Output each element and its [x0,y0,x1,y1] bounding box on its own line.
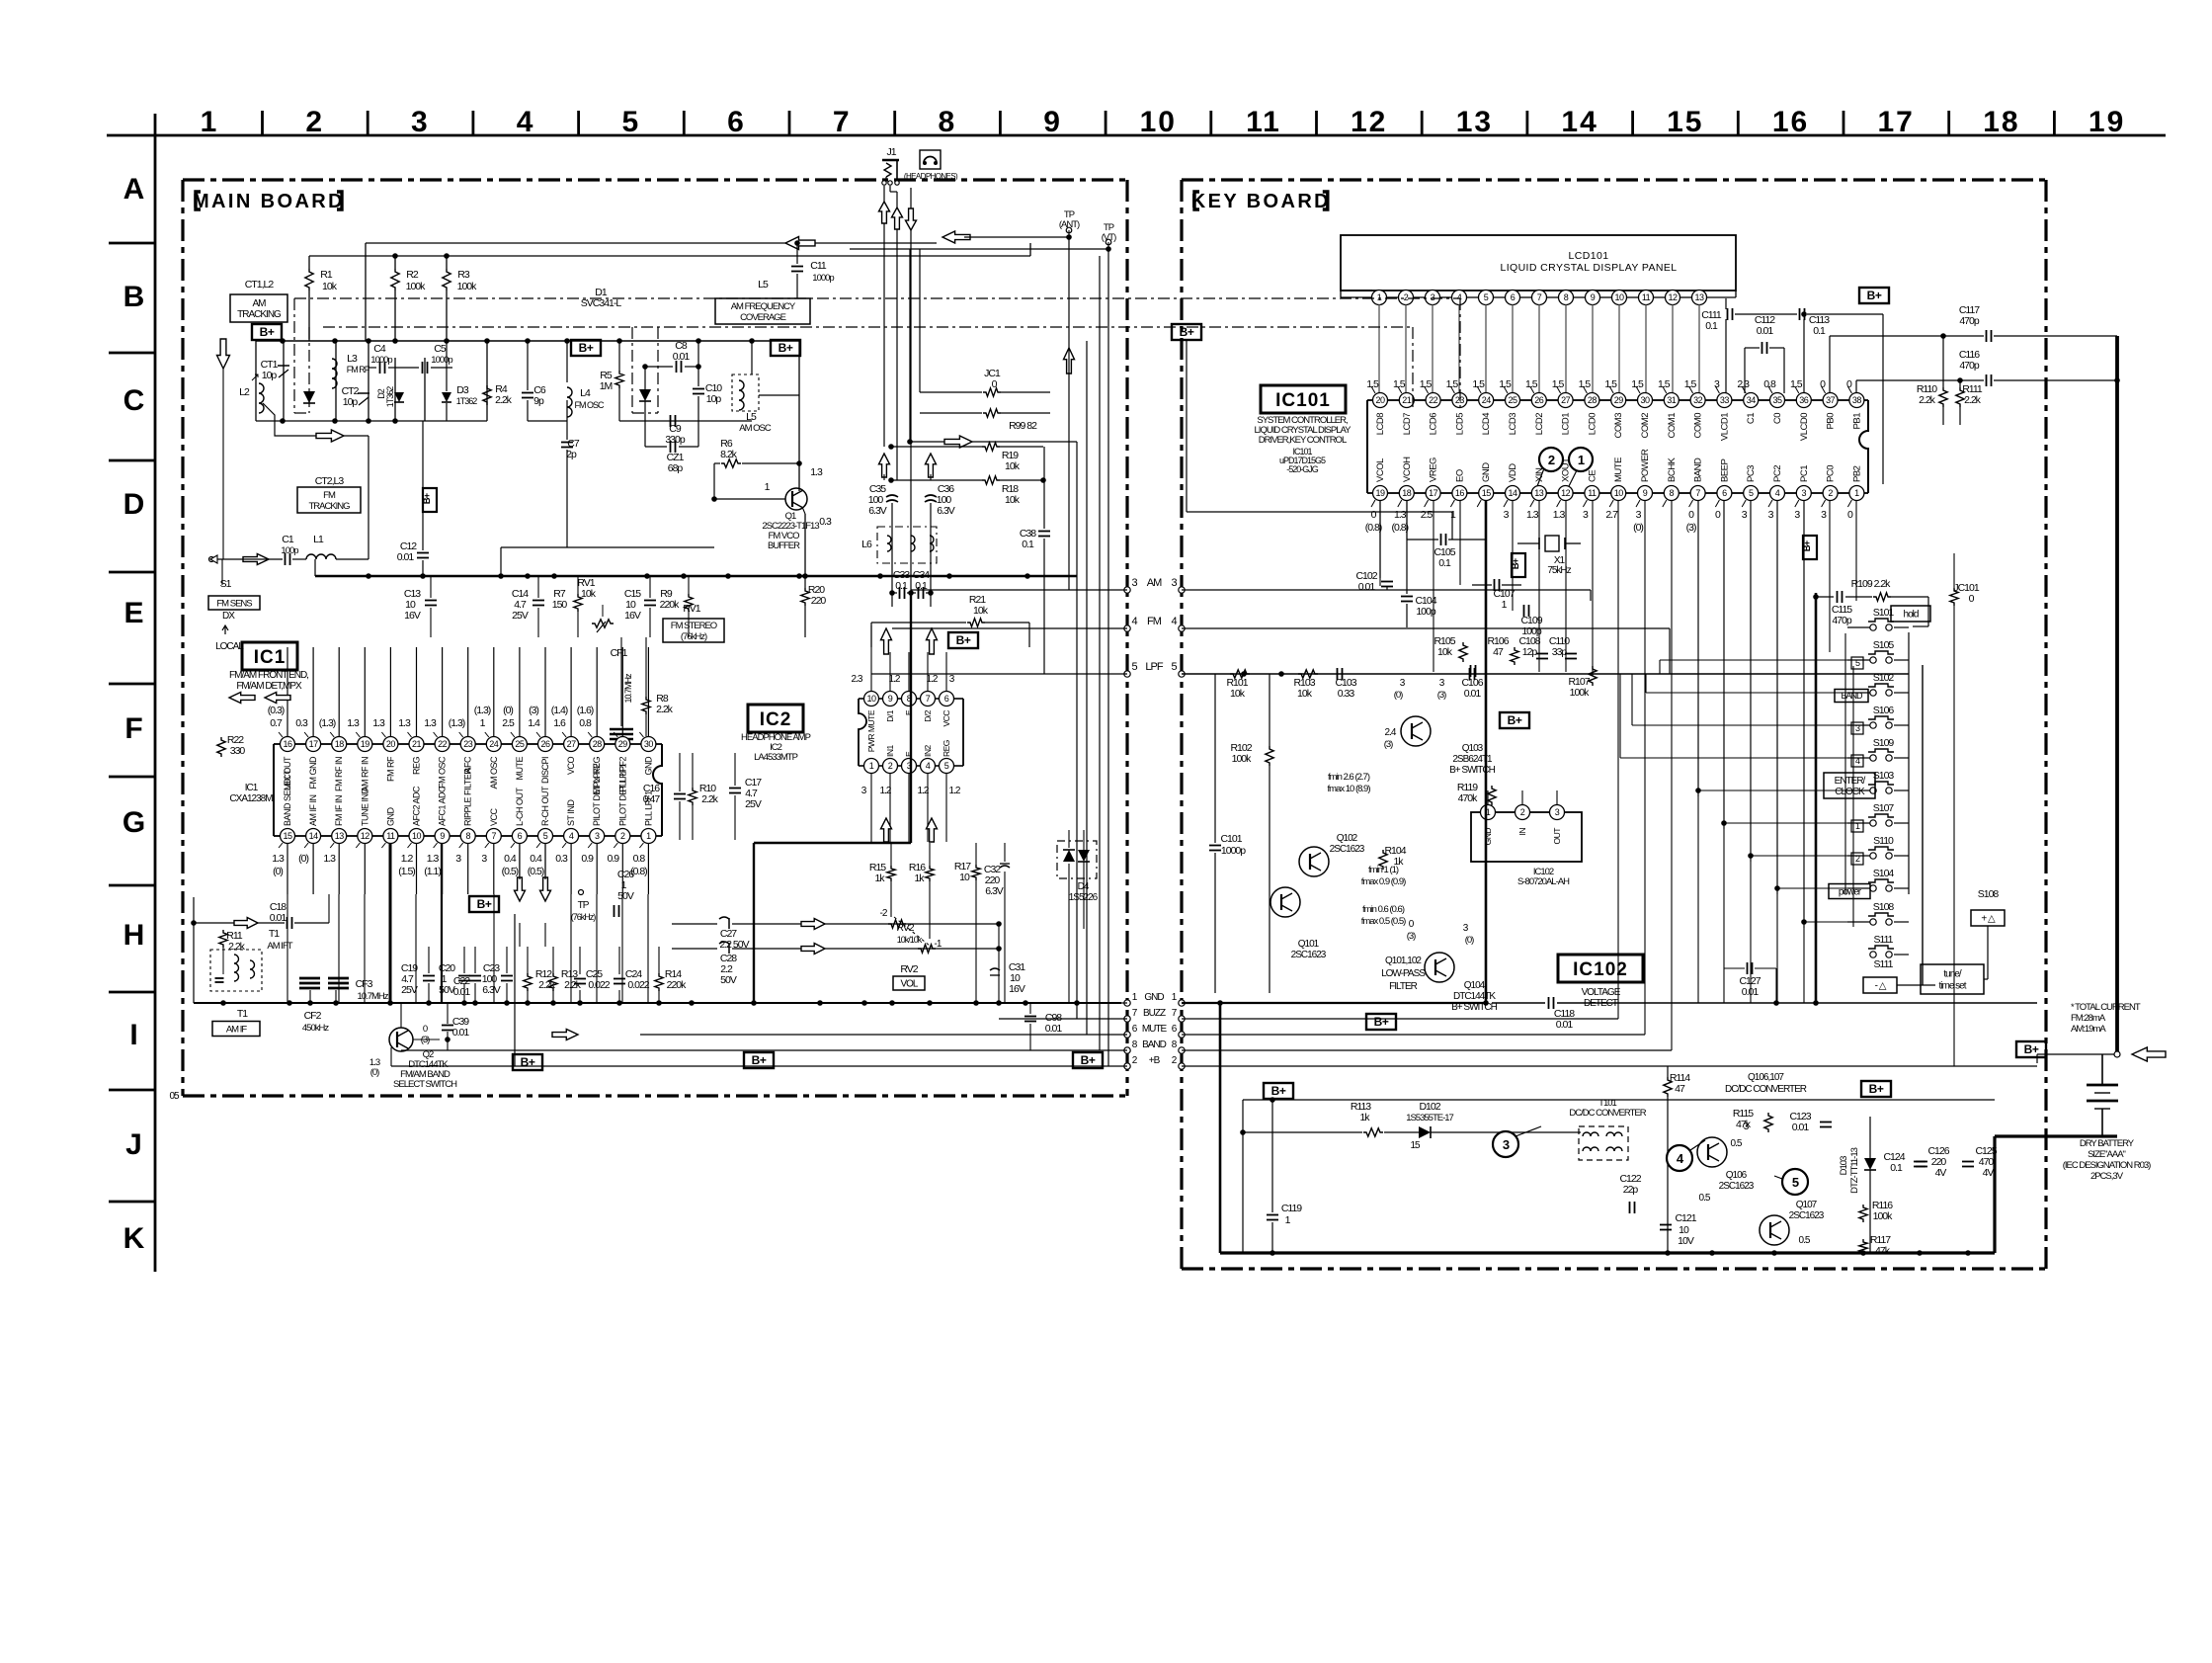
svg-text:2.7: 2.7 [1605,509,1618,521]
svg-text:COM0: COM0 [1693,413,1704,439]
svg-text:VOLTAGE: VOLTAGE [1582,987,1621,998]
svg-text:100k: 100k [457,281,478,292]
svg-text:VCOL: VCOL [1375,458,1386,482]
svg-text:FM RF IN: FM RF IN [334,757,344,791]
svg-text:25: 25 [515,739,525,749]
svg-text:7: 7 [1695,488,1700,498]
svg-text:(1.3): (1.3) [474,705,491,716]
svg-text:RIPPLE FILTER: RIPPLE FILTER [463,768,473,826]
svg-text:+B: +B [1149,1055,1161,1066]
svg-text:GND: GND [1483,828,1493,846]
svg-text:B+: B+ [1180,325,1194,339]
svg-text:ST IND: ST IND [566,799,576,826]
svg-text:PILOT DET LPF2: PILOT DET LPF2 [592,763,602,826]
svg-text:16V: 16V [1009,983,1025,995]
svg-text:31: 31 [1667,395,1677,405]
svg-text:24: 24 [489,739,499,749]
svg-text:AM:19mA: AM:19mA [2071,1024,2106,1035]
svg-text:PLL LPF1: PLL LPF1 [643,790,653,826]
svg-text:2.4: 2.4 [1385,727,1397,738]
svg-text:0.01: 0.01 [1556,1019,1574,1031]
svg-text:FM: FM [323,490,336,501]
svg-text:26: 26 [1534,395,1544,405]
svg-text:(0): (0) [1465,935,1474,946]
svg-text:R3: R3 [457,269,470,281]
svg-text:(1.6): (1.6) [577,705,594,716]
svg-text:PB1: PB1 [1851,413,1862,430]
svg-text:B+: B+ [778,341,793,355]
svg-text:2: 2 [1520,807,1525,817]
svg-text:2.2k: 2.2k [228,941,246,953]
svg-text:(1.1): (1.1) [424,866,441,877]
svg-text:DTC144TK: DTC144TK [1453,991,1496,1002]
svg-text:D/1: D/1 [885,709,895,722]
svg-text:1.6: 1.6 [553,717,566,729]
svg-text:B+: B+ [1869,1082,1884,1096]
svg-text:R-CH OUT: R-CH OUT [540,786,550,826]
svg-text:B+: B+ [579,341,594,355]
svg-text:B+: B+ [1867,289,1882,302]
svg-text:RV2: RV2 [900,963,918,975]
svg-text:KEY BOARD: KEY BOARD [1191,191,1331,212]
svg-text:1: 1 [201,106,219,138]
svg-text:1.3: 1.3 [427,853,440,865]
svg-text:4: 4 [1131,616,1137,627]
svg-text:C: C [123,384,144,417]
svg-text:T1: T1 [237,1008,248,1020]
svg-text:220k: 220k [667,979,688,991]
svg-text:VLCD1: VLCD1 [1719,413,1730,441]
svg-text:13: 13 [1534,488,1544,498]
svg-text:PWR MUTE: PWR MUTE [866,709,876,752]
svg-text:1000p: 1000p [812,273,834,284]
svg-text:17: 17 [309,739,319,749]
svg-text:11: 11 [1588,488,1597,498]
svg-text:FM OSC: FM OSC [438,756,448,789]
svg-text:1.2: 1.2 [880,786,892,796]
svg-text:4: 4 [1457,292,1462,302]
svg-text:5: 5 [1749,488,1754,498]
svg-text:+ △: + △ [1981,914,1996,925]
svg-text:Q101: Q101 [1298,939,1320,950]
svg-text:18: 18 [335,739,345,749]
svg-text:DISCPI: DISCPI [540,757,550,784]
svg-text:5: 5 [543,831,548,841]
svg-text:S103: S103 [1873,770,1895,782]
svg-text:10: 10 [959,872,970,883]
svg-text:LCD5: LCD5 [1454,413,1465,436]
svg-text:E: E [904,709,914,715]
svg-text:1T362: 1T362 [456,396,478,406]
svg-text:(0.5): (0.5) [528,866,544,877]
svg-text:PC1: PC1 [1799,465,1810,482]
svg-text:2SC1623: 2SC1623 [1719,1181,1755,1192]
svg-text:(0.5): (0.5) [502,866,519,877]
svg-text:LCD2: LCD2 [1534,413,1545,436]
svg-text:25V: 25V [745,798,762,810]
svg-text:Q104: Q104 [1464,980,1486,991]
svg-text:0.1: 0.1 [1813,325,1826,337]
svg-text:0.022: 0.022 [627,979,649,991]
svg-text:13: 13 [1456,106,1493,138]
svg-text:26: 26 [540,739,550,749]
svg-text:11: 11 [386,831,395,841]
svg-text:10k: 10k [581,588,597,600]
svg-text:220: 220 [811,595,827,607]
svg-text:0.9: 0.9 [581,853,594,865]
svg-text:2.5: 2.5 [502,717,515,729]
svg-text:fmin 2.6 (2.7): fmin 2.6 (2.7) [1328,772,1370,783]
svg-text:C26: C26 [617,869,634,880]
svg-text:4: 4 [517,106,535,138]
svg-text:GND: GND [1481,462,1492,482]
svg-text:38: 38 [1852,395,1862,405]
svg-text:(0): (0) [1633,522,1643,534]
svg-text:25V: 25V [512,610,529,622]
svg-text:0.01: 0.01 [1045,1023,1063,1035]
svg-text:(3): (3) [1437,690,1446,701]
svg-text:0.8: 0.8 [633,853,646,865]
svg-text:2: 2 [620,831,625,841]
svg-text:10: 10 [1140,106,1177,138]
svg-text:AM: AM [253,298,267,309]
svg-text:CF3: CF3 [356,978,373,990]
svg-text:S105: S105 [1873,639,1895,651]
svg-text:0.01: 0.01 [1757,325,1774,337]
svg-text:LCD8: LCD8 [1375,413,1386,436]
svg-text:TRACKING: TRACKING [308,501,350,512]
svg-text:5: 5 [621,106,640,138]
svg-text:21: 21 [1402,395,1412,405]
svg-text:LIQUID CRYSTAL DISPLAY PANEL: LIQUID CRYSTAL DISPLAY PANEL [1500,262,1677,274]
svg-text:1.3: 1.3 [1553,509,1566,521]
svg-text:28: 28 [1588,395,1598,405]
svg-text:D103: D103 [1839,1156,1849,1175]
svg-text:14: 14 [1561,106,1598,138]
svg-text:LCD1: LCD1 [1561,413,1572,436]
svg-text:5: 5 [1792,1175,1799,1190]
svg-text:AM RF IN: AM RF IN [360,757,369,792]
svg-text:R2: R2 [406,269,419,281]
svg-text:2SC1623: 2SC1623 [1291,950,1327,960]
svg-text:AM OSC: AM OSC [739,423,772,434]
svg-text:15: 15 [283,831,292,841]
svg-text:1: 1 [1377,292,1382,302]
svg-text:tune/: tune/ [1943,969,1961,980]
svg-text:ENTER/: ENTER/ [1835,776,1866,787]
svg-text:1000p: 1000p [431,355,452,366]
svg-text:1: 1 [1854,488,1859,498]
svg-text:1.4: 1.4 [528,717,540,729]
svg-text:LA4533MTP: LA4533MTP [754,752,797,763]
svg-text:B+: B+ [1081,1053,1096,1067]
svg-text:AM: AM [1147,577,1162,589]
svg-text:4V: 4V [1983,1167,1995,1179]
svg-text:(1.4): (1.4) [551,705,568,716]
svg-text:0.01: 0.01 [397,551,415,563]
svg-text:S104: S104 [1873,868,1895,879]
svg-text:16: 16 [283,739,292,749]
svg-text:H: H [123,919,144,952]
svg-text:0.4: 0.4 [504,853,517,865]
svg-text:CXA1238M: CXA1238M [229,793,273,804]
svg-text:* TOTAL CURRENT: * TOTAL CURRENT [2071,1002,2141,1013]
svg-text:1: 1 [869,761,874,771]
svg-text:REG: REG [942,740,951,757]
svg-text:9p: 9p [533,395,544,407]
svg-text:(IEC DESIGNATION R03): (IEC DESIGNATION R03) [2063,1160,2151,1171]
svg-text:3: 3 [595,831,600,841]
svg-text:S-80720AL-AH: S-80720AL-AH [1517,876,1570,887]
svg-text:0.7: 0.7 [270,717,283,729]
svg-text:1.3: 1.3 [810,466,823,478]
svg-text:DTZ-TT11-13: DTZ-TT11-13 [1849,1147,1860,1194]
svg-text:7: 7 [926,694,931,704]
svg-text:0.9: 0.9 [607,853,619,865]
svg-text:27: 27 [1561,395,1571,405]
svg-text:470p: 470p [1832,615,1852,626]
svg-text:6: 6 [1511,292,1516,302]
svg-text:MUTE: MUTE [1142,1024,1168,1035]
svg-text:D3: D3 [456,384,469,396]
svg-text:22p: 22p [1623,1184,1639,1196]
svg-text:C101: C101 [1220,833,1242,845]
svg-text:10k: 10k [1005,460,1021,472]
svg-text:470p: 470p [1959,360,1980,372]
svg-text:J: J [125,1128,141,1161]
svg-text:L-CH OUT: L-CH OUT [515,787,525,826]
svg-text:8: 8 [465,831,470,841]
svg-text:F: F [124,712,142,745]
svg-text:A: A [123,173,144,206]
svg-text:MUTE: MUTE [1613,457,1624,482]
svg-text:6: 6 [727,106,746,138]
svg-text:9: 9 [1043,106,1062,138]
svg-text:9: 9 [888,694,893,704]
svg-text:7: 7 [833,106,852,138]
svg-text:C119: C119 [1281,1203,1302,1214]
svg-text:B+: B+ [521,1055,535,1069]
svg-text:(HEADPHONES): (HEADPHONES) [904,172,958,181]
svg-text:1.3: 1.3 [272,853,285,865]
svg-text:FM RF: FM RF [385,756,395,782]
svg-text:(3): (3) [1407,931,1416,942]
svg-text:470k: 470k [1458,792,1479,804]
svg-text:10k: 10k [322,281,338,292]
svg-text:0.3: 0.3 [295,717,308,729]
svg-text:10k: 10k [1005,494,1021,506]
svg-text:36: 36 [1799,395,1809,405]
svg-text:12: 12 [1668,292,1678,302]
svg-text:3: 3 [1503,1137,1510,1152]
svg-text:22: 22 [438,739,448,749]
svg-text:32: 32 [1693,395,1703,405]
svg-text:MAIN BOARD: MAIN BOARD [193,191,345,212]
svg-text:3: 3 [1555,807,1560,817]
svg-text:15: 15 [1667,106,1703,138]
svg-text:DRY BATTERY: DRY BATTERY [2080,1138,2135,1149]
svg-text:LCD101: LCD101 [1569,250,1609,262]
svg-text:D: D [123,488,144,521]
svg-text:(0): (0) [298,853,308,865]
svg-text:10k: 10k [1230,688,1246,700]
svg-text:Q103: Q103 [1462,743,1484,754]
svg-text:BCHK: BCHK [1667,457,1678,482]
svg-text:D102: D102 [1419,1101,1440,1113]
svg-text:PC0: PC0 [1826,465,1837,482]
svg-text:REG: REG [412,757,422,776]
svg-text:47k: 47k [1875,1245,1891,1257]
svg-text:4: 4 [926,761,931,771]
svg-text:100k: 100k [1570,687,1591,699]
svg-text:LCD7: LCD7 [1402,413,1413,436]
svg-text:21: 21 [412,739,422,749]
svg-text:11: 11 [1246,106,1281,138]
svg-text:S110: S110 [1873,835,1894,847]
svg-text:1000p: 1000p [1221,845,1246,857]
svg-text:COM3: COM3 [1613,413,1624,439]
svg-text:2SC1623: 2SC1623 [1330,844,1365,855]
svg-text:(0.3): (0.3) [268,705,285,716]
svg-text:BEEP: BEEP [1719,458,1730,482]
svg-text:(1.3): (1.3) [449,717,465,729]
svg-text:0.1: 0.1 [1438,557,1451,569]
svg-text:E: E [123,597,142,629]
svg-text:2: 2 [1404,292,1409,302]
svg-text:8: 8 [939,106,957,138]
svg-text:0.5: 0.5 [1699,1193,1711,1204]
svg-text:FM OSC: FM OSC [575,400,605,410]
svg-text:12p: 12p [1522,646,1538,658]
svg-text:1: 1 [646,831,651,841]
svg-text:5: 5 [1131,661,1137,673]
svg-text:(0): (0) [1394,690,1403,701]
svg-text:VREG: VREG [1429,457,1439,482]
svg-text:12: 12 [1561,488,1571,498]
svg-text:FM/AM DET,MPX: FM/AM DET,MPX [236,681,302,692]
svg-text:BAND: BAND [1142,1039,1167,1050]
svg-text:75kHz: 75kHz [1547,565,1571,576]
svg-text:0.022: 0.022 [588,979,610,991]
svg-text:(0): (0) [370,1067,379,1078]
svg-text:10: 10 [1614,488,1624,498]
svg-text:RV2: RV2 [896,922,914,934]
svg-text:Q106,107: Q106,107 [1748,1072,1784,1083]
svg-text:3: 3 [1131,577,1137,589]
svg-text:50V: 50V [720,974,737,986]
svg-text:18: 18 [1983,106,2019,138]
svg-text:B+: B+ [1508,713,1522,727]
svg-text:2.2k: 2.2k [495,394,513,406]
svg-text:10k: 10k [1297,688,1313,700]
svg-text:S108: S108 [1873,901,1895,913]
svg-text:I: I [129,1019,136,1051]
svg-text:2.2k: 2.2k [1964,394,1982,406]
svg-text:1.3: 1.3 [347,717,360,729]
svg-text:47: 47 [1675,1083,1685,1095]
svg-text:10.7MHz: 10.7MHz [623,673,633,704]
svg-text:16: 16 [1455,488,1465,498]
svg-text:14: 14 [309,831,319,841]
svg-text:0.1: 0.1 [1705,320,1718,332]
svg-text:LPF: LPF [1145,661,1163,673]
svg-text:50V: 50V [617,890,634,902]
svg-text:S106: S106 [1873,705,1895,716]
svg-text:1T362: 1T362 [385,386,395,408]
svg-text:IC102: IC102 [1573,959,1628,980]
svg-text:COM2: COM2 [1640,413,1651,439]
svg-text:23: 23 [463,739,473,749]
svg-text:10k: 10k [1437,646,1453,658]
svg-text:Q107: Q107 [1796,1200,1818,1210]
svg-text:0.5: 0.5 [1731,1138,1743,1149]
svg-text:470p: 470p [1959,315,1980,327]
svg-text:3: 3 [1171,577,1177,589]
svg-text:0.01: 0.01 [270,912,287,924]
svg-text:Q106: Q106 [1726,1170,1748,1181]
svg-text:CT1,L2: CT1,L2 [245,279,275,291]
svg-text:RV1: RV1 [683,603,700,615]
svg-text:19: 19 [361,739,370,749]
svg-text:13: 13 [335,831,345,841]
svg-text:GND: GND [385,807,395,827]
svg-text:2.2k: 2.2k [1919,394,1936,406]
svg-text:0.01: 0.01 [453,986,471,998]
svg-text:10k: 10k [973,605,989,617]
svg-text:30: 30 [1640,395,1650,405]
svg-text:35: 35 [1772,395,1782,405]
svg-text:27: 27 [567,739,577,749]
svg-text:L5: L5 [758,279,769,291]
svg-text:2: 2 [305,106,324,138]
svg-text:1.3: 1.3 [1394,509,1407,521]
svg-text:R1: R1 [320,269,333,281]
svg-text:16: 16 [1772,106,1809,138]
svg-text:2.3: 2.3 [852,674,863,685]
svg-text:1000p: 1000p [370,355,392,366]
svg-text:COM1: COM1 [1667,413,1678,439]
svg-text:34: 34 [1747,395,1757,405]
svg-text:2.2k: 2.2k [564,979,582,991]
svg-text:3: 3 [1802,488,1807,498]
svg-text:CLOCK: CLOCK [1835,787,1865,797]
svg-text:6.3V: 6.3V [937,505,955,517]
svg-text:EO: EO [1454,469,1465,482]
svg-text:0.1: 0.1 [1022,539,1034,550]
svg-text:VDD: VDD [1508,463,1518,482]
svg-text:C4: C4 [373,343,386,355]
svg-text:VCC: VCC [489,807,499,826]
svg-text:AFC2 ADC: AFC2 ADC [412,786,422,826]
svg-text:C11: C11 [810,260,827,272]
svg-text:15: 15 [1410,1140,1421,1151]
svg-text:6.3V: 6.3V [868,505,887,517]
svg-text:E: E [904,751,914,757]
svg-text:6.3V: 6.3V [482,984,501,996]
svg-text:1.2: 1.2 [889,674,901,685]
svg-text:0.01: 0.01 [1742,986,1760,998]
svg-text:10p: 10p [706,393,722,405]
svg-text:IN1: IN1 [885,745,895,758]
svg-text:330: 330 [230,745,246,757]
svg-text:LCD4: LCD4 [1481,413,1492,436]
svg-text:AM IFT: AM IFT [267,941,292,952]
svg-text:PILOT DET LPF1: PILOT DET LPF1 [617,763,627,826]
svg-text:(76kHz): (76kHz) [681,631,707,642]
svg-text:VCOH: VCOH [1402,457,1413,482]
svg-text:2: 2 [1828,488,1833,498]
svg-text:VOL: VOL [900,979,918,990]
